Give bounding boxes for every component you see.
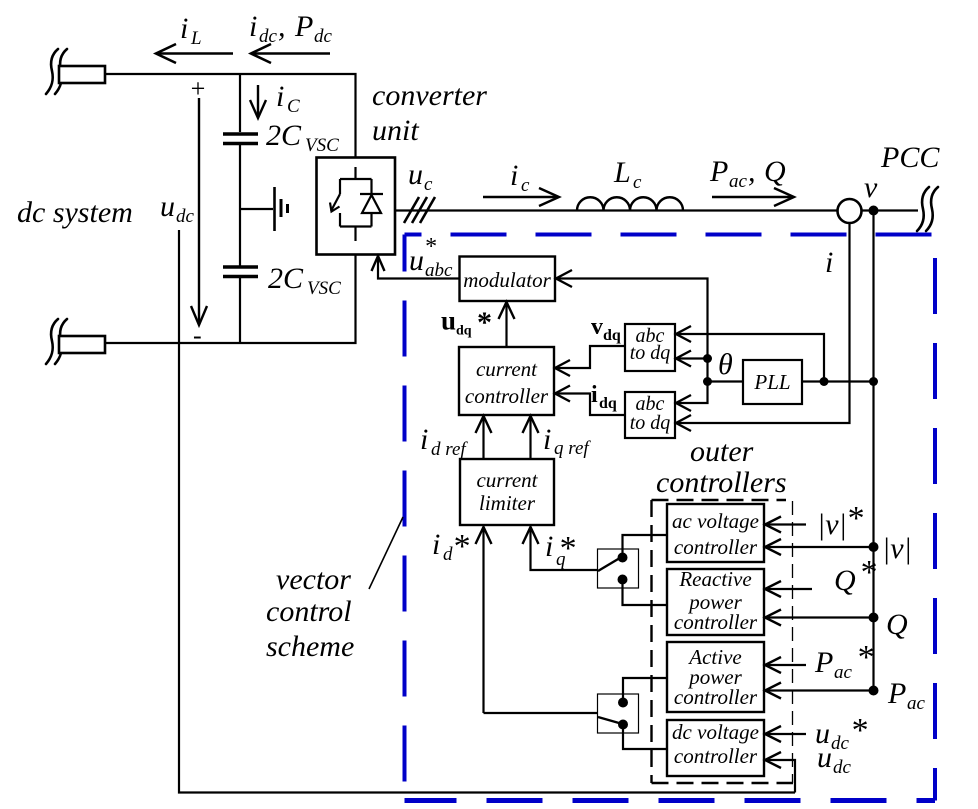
switch S1 box: [598, 549, 639, 588]
arrow Q: [765, 610, 781, 626]
svg-text:modulator: modulator: [463, 268, 551, 292]
arrow u_dc: [765, 752, 781, 768]
wire i measurement: [676, 223, 850, 423]
arrow into modulator bottom: [499, 302, 515, 319]
inductor L_c: [577, 197, 683, 210]
arrow into converter bottom: [372, 256, 385, 271]
converter unit box U1: [317, 158, 396, 255]
svg-text:i: i: [420, 423, 428, 456]
wire i_d* horizontal to switch2: [484, 712, 599, 714]
svg-text:*: *: [558, 530, 575, 567]
svg-text:Q: Q: [834, 564, 856, 597]
wire capacitor branch upper: [239, 74, 241, 132]
svg-text:current: current: [476, 357, 538, 381]
wire Q* input: [764, 588, 812, 590]
wire current limiter to current controller q: [529, 416, 531, 459]
ac voltage controller box: [667, 504, 764, 562]
svg-text:P: P: [814, 646, 833, 679]
dc voltage controller box: [667, 720, 764, 776]
svg-text:i: i: [825, 246, 833, 279]
svg-text:*: *: [850, 712, 867, 749]
arrow i_C: [250, 85, 266, 118]
svg-text:VSC: VSC: [307, 278, 341, 299]
switch S2 top contact: [618, 698, 628, 708]
switch S2 box: [598, 694, 639, 733]
svg-text:u: u: [160, 190, 175, 223]
wire i_dq to current controller: [554, 394, 625, 416]
svg-text:dc: dc: [831, 733, 850, 754]
svg-text:i: i: [432, 528, 440, 561]
wire |v| input: [764, 546, 874, 548]
svg-text:unit: unit: [372, 114, 419, 147]
switch S1 bottom contact: [618, 575, 628, 585]
svg-text:i: i: [180, 12, 188, 45]
arrow into current controller v_dq: [555, 360, 570, 376]
svg-text:*: *: [452, 528, 469, 565]
blue dashed boundary vector control scheme: [405, 235, 936, 801]
svg-text:PLL: PLL: [753, 370, 790, 394]
svg-text:v: v: [864, 171, 878, 204]
svg-text:dq: dq: [456, 324, 472, 339]
svg-text:q ref: q ref: [554, 438, 591, 459]
svg-text:*: *: [424, 234, 436, 260]
svg-text:P: P: [294, 10, 313, 43]
arrow u_dc*: [765, 726, 781, 742]
svg-text:ac: ac: [834, 662, 853, 683]
arrow i_q ref: [523, 416, 539, 433]
svg-text:i: i: [510, 159, 518, 192]
svg-text:controller: controller: [674, 744, 758, 768]
svg-text:C: C: [287, 96, 300, 117]
svg-text:to dq: to dq: [630, 412, 671, 434]
wire current controller to modulator: [505, 301, 507, 347]
arrow i_dc: [251, 44, 330, 63]
arrow into i_dq box upper: [676, 395, 691, 411]
arrow P_ac Q: [712, 188, 794, 206]
Active power controller box: [667, 642, 764, 712]
capacitor 2C_VSC top: [223, 134, 258, 144]
svg-text:*: *: [846, 500, 863, 537]
svg-text:limiter: limiter: [479, 491, 536, 515]
svg-text:dc system: dc system: [17, 196, 133, 229]
arrow |v|: [765, 539, 781, 555]
wire after circle: [862, 209, 919, 211]
svg-text:|v|: |v|: [882, 532, 912, 565]
wire theta to v_dq lower input: [676, 357, 708, 359]
svg-text:controllers: controllers: [656, 466, 787, 499]
wire u_dc feedback: [179, 230, 795, 793]
dc terminal top-left box: [59, 66, 105, 83]
node P_ac: [869, 686, 879, 696]
wire top dc bus: [105, 74, 356, 158]
svg-text:u: u: [409, 244, 424, 277]
current controller box: [459, 347, 554, 415]
svg-text:converter: converter: [372, 79, 487, 112]
svg-text:+: +: [189, 74, 207, 103]
arrow P_ac: [765, 683, 781, 699]
arrow |v|*: [765, 517, 781, 533]
arrow P_ac*: [765, 657, 781, 673]
wire modulator to converter: [378, 258, 460, 279]
node v dot: [869, 206, 879, 216]
three-phase slashes: [404, 197, 435, 223]
svg-text:c: c: [424, 174, 433, 195]
wire u_dc input: [764, 760, 795, 793]
ac line end squiggle: [917, 187, 938, 231]
wire capacitor branch middle: [239, 144, 241, 267]
wire v measurement vertical: [872, 211, 874, 692]
svg-text:u: u: [441, 306, 456, 336]
abc to dq box 2: [625, 392, 675, 438]
current limiter box: [460, 459, 554, 525]
svg-text:,: ,: [748, 155, 756, 188]
svg-text:i: i: [249, 10, 257, 43]
arrow i_c: [483, 188, 559, 206]
arrow into v_dq box upper: [676, 326, 691, 342]
switch S2 blade: [598, 717, 619, 723]
wire S2 bottom to dc voltage controller: [623, 725, 667, 750]
node Q: [869, 613, 879, 623]
svg-text:dc: dc: [176, 206, 195, 227]
wire u_dc* input: [764, 733, 806, 735]
wire P_ac* input: [764, 664, 806, 666]
modulator box: [460, 257, 556, 302]
svg-text:2C: 2C: [268, 262, 304, 295]
svg-text:c: c: [633, 172, 642, 193]
black dashed outer controllers frame: [652, 500, 794, 783]
svg-text:ac: ac: [729, 171, 748, 192]
svg-text:*: *: [856, 639, 873, 676]
svg-text:*: *: [859, 554, 876, 591]
arrow into modulator right: [556, 270, 572, 287]
svg-text:dc: dc: [833, 757, 852, 778]
svg-text:controller: controller: [465, 384, 549, 408]
PLL box: [743, 360, 802, 404]
svg-text:i: i: [543, 423, 551, 456]
svg-text:i: i: [545, 530, 553, 563]
ground: [275, 187, 288, 231]
node dot theta lower: [703, 377, 712, 386]
svg-text:control: control: [266, 595, 352, 628]
switch S2 bottom contact: [618, 720, 628, 730]
wire v_dq to current controller: [554, 346, 625, 368]
svg-text:dc: dc: [314, 26, 333, 47]
wire S1 top to ac voltage controller: [623, 535, 668, 558]
svg-text:L: L: [190, 28, 202, 49]
svg-text:θ: θ: [718, 348, 733, 381]
capacitor 2C_VSC bottom: [223, 267, 258, 277]
svg-text:outer: outer: [690, 435, 754, 468]
svg-text:*: *: [477, 306, 492, 339]
svg-text:P: P: [709, 155, 728, 188]
svg-text:-: -: [193, 321, 202, 350]
node dot on v line at PLL: [869, 377, 878, 386]
arrow i_L: [156, 44, 233, 63]
wire P_ac input: [764, 689, 874, 691]
wire S1 bottom to reactive power controller: [623, 580, 668, 606]
svg-text:controller: controller: [674, 535, 758, 559]
wire current limiter to current controller d: [482, 416, 484, 459]
svg-text:controller: controller: [674, 685, 758, 709]
arrow i_d ref: [476, 416, 492, 433]
svg-text:v: v: [591, 314, 603, 340]
arrow Q*: [765, 581, 781, 597]
svg-text:c: c: [521, 175, 530, 196]
svg-text:i: i: [591, 382, 598, 408]
arrow i_q* into limiter: [523, 527, 539, 544]
arrow into i_dq box lower: [676, 415, 691, 431]
wire capacitor branch lower: [239, 277, 241, 344]
dc terminal bottom-left squiggle: [46, 319, 67, 364]
wire theta to modulator: [555, 279, 708, 404]
svg-text:i: i: [276, 80, 284, 113]
svg-text:,: ,: [278, 10, 286, 43]
svg-text:dq: dq: [599, 395, 617, 412]
svg-text:P: P: [887, 677, 906, 710]
node |v|: [869, 542, 879, 552]
svg-text:controller: controller: [674, 610, 758, 634]
svg-text:ac: ac: [907, 693, 926, 714]
node dot theta upper: [703, 354, 712, 363]
wire to ground: [240, 208, 273, 210]
callout line: [369, 517, 403, 589]
svg-text:dc: dc: [259, 26, 278, 47]
svg-text:ac voltage: ac voltage: [672, 509, 759, 533]
wire v tap to v_dq upper input: [676, 334, 824, 382]
dc terminal bottom-left box: [59, 336, 105, 353]
node dot on PLL input: [820, 377, 829, 386]
arrow into v_dq box lower: [676, 351, 691, 367]
svg-text:Q: Q: [764, 155, 786, 188]
svg-text:Reactive: Reactive: [678, 567, 751, 591]
svg-text:|v|: |v|: [817, 508, 847, 541]
wire i_d*: [482, 527, 484, 713]
svg-text:u: u: [408, 158, 423, 191]
svg-text:to dq: to dq: [630, 342, 671, 364]
svg-text:vector: vector: [276, 563, 351, 596]
wire ac line from converter: [395, 209, 837, 211]
svg-text:PCC: PCC: [880, 141, 940, 174]
arrow into current controller i_dq: [555, 386, 570, 402]
measurement circle: [838, 199, 862, 223]
switch S1 blade: [598, 559, 619, 572]
svg-text:Q: Q: [886, 608, 908, 641]
svg-text:VSC: VSC: [305, 135, 339, 156]
dc terminal top-left squiggle: [46, 49, 67, 94]
arrow u_dc measurement: [191, 98, 207, 325]
wire Q input: [764, 616, 874, 618]
svg-text:2C: 2C: [266, 119, 302, 152]
arrow i_d* into limiter: [476, 527, 492, 544]
svg-text:d ref: d ref: [431, 439, 468, 460]
IGBT switch and diode inside converter: [330, 167, 383, 241]
wire PLL input from v line: [802, 380, 874, 382]
wire PLL output theta: [708, 380, 744, 382]
abc to dq box 1: [625, 324, 675, 371]
switch S1 top contact: [618, 553, 628, 563]
svg-text:dq: dq: [603, 327, 621, 344]
svg-text:dc voltage: dc voltage: [672, 720, 759, 744]
wire |v|* input: [764, 523, 806, 525]
svg-text:L: L: [613, 156, 631, 189]
svg-text:u: u: [817, 741, 832, 774]
svg-text:current: current: [476, 468, 538, 492]
Reactive power controller box: [667, 569, 764, 635]
wire bottom dc bus: [105, 255, 356, 344]
svg-text:scheme: scheme: [266, 630, 354, 663]
wire S2 top to active power controller: [623, 678, 667, 703]
wire i_q*: [531, 527, 599, 570]
